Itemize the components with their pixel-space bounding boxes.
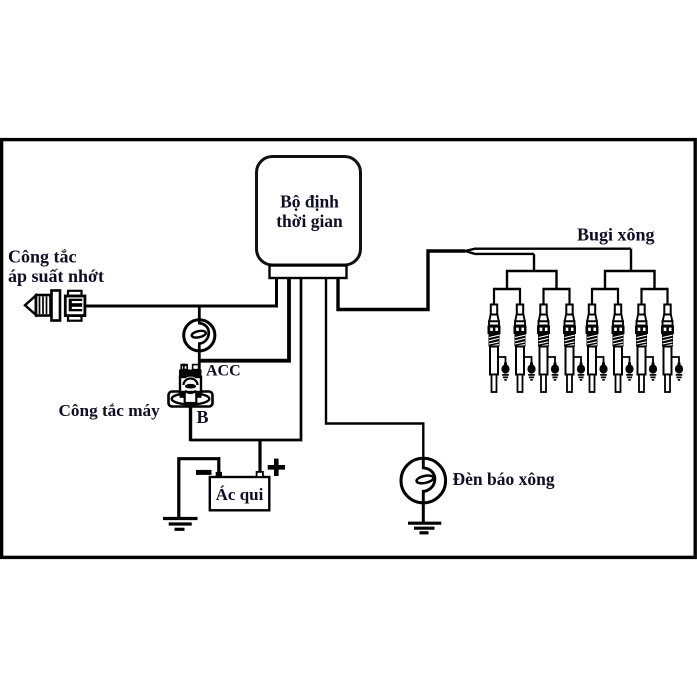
glow plug 6 — [612, 288, 634, 392]
border frame — [2, 140, 696, 558]
wire: battery plus branch — [258, 440, 261, 472]
wire: fuse to ignition switch ACC — [198, 351, 201, 373]
ground under lamp — [408, 503, 441, 533]
node: junction to fuse/lamp branch — [198, 306, 201, 320]
wire: left sub-bus — [507, 271, 557, 289]
wire: left group feed — [533, 254, 535, 271]
indicator lamp L1 (Đèn báo xông) — [401, 458, 446, 503]
glow plug 1 — [488, 288, 510, 392]
svg-text:Công tắc: Công tắc — [8, 247, 77, 267]
oil pressure switch S1 — [25, 291, 85, 321]
wire: ignition switch B to junction — [189, 407, 192, 441]
glow plug 4 — [563, 288, 585, 392]
svg-text:Ác qui: Ác qui — [216, 485, 264, 504]
wire splice wedge — [465, 249, 631, 254]
svg-text:Công tắc máy: Công tắc máy — [59, 401, 161, 420]
timer unit U1 (Bộ định thời gian) — [257, 157, 361, 266]
glow plug 2 — [514, 288, 536, 392]
wire: plug bus A — [494, 288, 520, 290]
wire: right group feed — [630, 249, 632, 271]
ignition switch SW1 (Công tắc máy) — [169, 364, 213, 407]
fuse circle F1 — [184, 320, 215, 351]
glow plug 3 — [537, 288, 559, 392]
svg-text:Bugi xông: Bugi xông — [577, 225, 655, 245]
wire: battery negative to ground — [179, 459, 219, 518]
wire: plug bus D — [642, 288, 668, 290]
wire: timer pin2 down and left to ACC junction — [199, 278, 289, 361]
wire: timer pin4 to indicator lamp — [326, 278, 423, 459]
svg-text:ACC: ACC — [206, 363, 241, 380]
wire: timer pin1 to oil pressure switch — [86, 278, 277, 306]
label: plus sign — [268, 459, 285, 476]
wire: timer pin3 down to B/battery junction — [191, 278, 302, 440]
svg-text:B: B — [197, 407, 209, 427]
svg-text:áp suất nhớt: áp suất nhớt — [8, 266, 104, 286]
glow plug 7 — [635, 288, 657, 392]
glow plug 5 — [586, 288, 608, 392]
ground under battery — [163, 519, 198, 530]
wire: plug bus B — [544, 288, 570, 290]
wire: plug bus C — [592, 288, 618, 290]
label: minus sign — [196, 470, 212, 475]
timer base plate — [270, 266, 347, 279]
svg-text:thời gian: thời gian — [276, 211, 343, 231]
wire: timer pin5 to glow plug feed — [338, 251, 465, 310]
wire: B terminal vertical — [189, 404, 192, 441]
svg-text:Đèn báo xông: Đèn báo xông — [453, 469, 555, 489]
svg-text:Bộ định: Bộ định — [280, 192, 339, 212]
glow plug 8 — [661, 288, 683, 392]
wire: right sub-bus — [605, 271, 655, 289]
battery BT1 (Ắc qui) — [210, 472, 269, 510]
